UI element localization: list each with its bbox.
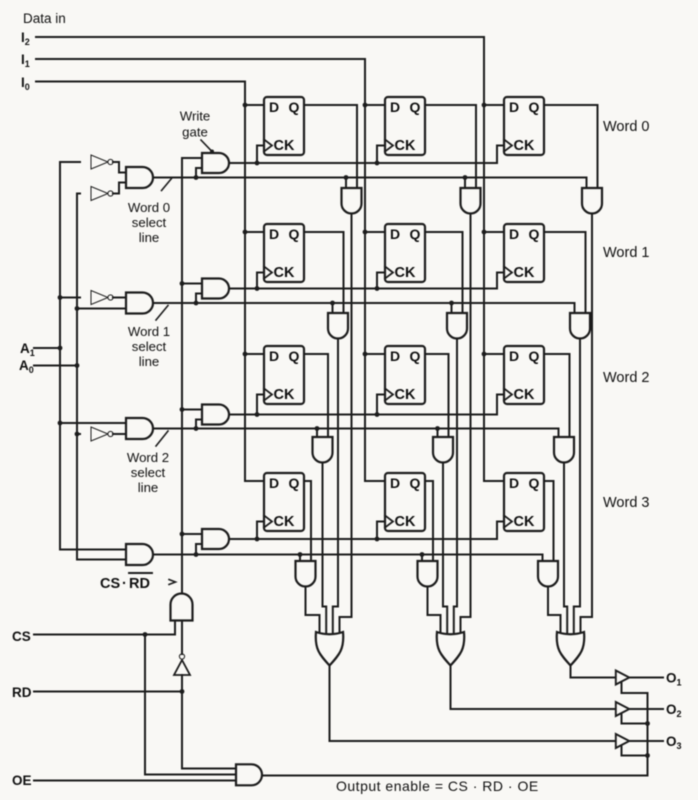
wire O2 output [629, 708, 663, 710]
svg-text:Word 3: Word 3 [603, 495, 649, 511]
label Word 0 [603, 119, 649, 135]
AND gate word2 select [126, 418, 153, 439]
wire word2 bit0 read output [323, 463, 327, 637]
svg-text:select: select [131, 465, 166, 480]
wire word3 select line [153, 554, 543, 556]
label OE [12, 773, 32, 788]
wire word1 bit2 read output [574, 339, 580, 637]
svg-text:CK: CK [274, 138, 295, 154]
svg-text:·: · [122, 576, 127, 592]
AND gate word3 write W3 [202, 529, 229, 549]
wire word0 bit1 select stub [463, 175, 468, 188]
wire word3 bit0 read output [306, 587, 320, 637]
wire RD inverter connections [181, 621, 183, 692]
wire word1 bit2 select stub [574, 303, 576, 313]
AND gate CS.RDbar (vertical) [171, 594, 193, 621]
wire word2 bit2 clock hook [497, 395, 504, 415]
wire word2 write gate inputs [182, 410, 202, 431]
svg-text:D: D [390, 99, 400, 115]
wire word3 write gate inputs [182, 534, 202, 557]
AND gate word1 write W1 [202, 279, 229, 299]
flip-flop word0 bit2 U02 [504, 97, 544, 155]
svg-text:CK: CK [514, 387, 535, 403]
AND gate word2 bit0 read [313, 437, 333, 463]
wire A0 to word1 gate [77, 308, 126, 310]
arrow word2 select [156, 431, 168, 446]
label O2 [666, 702, 682, 719]
AND gate word3 bit2 read [538, 561, 558, 587]
AND gate word1 select [126, 293, 153, 314]
wire word2 inverter out [113, 433, 126, 435]
wire A0 bus vertical [75, 194, 80, 560]
svg-text:CK: CK [395, 514, 416, 530]
AND gate word3 select [126, 544, 153, 565]
wire A1 to word3 gate [60, 549, 126, 551]
label Word 2 select line [127, 450, 169, 495]
wire word3 bit1 read output [428, 587, 441, 637]
wire word1 bit2 Q output [544, 232, 586, 313]
svg-text:O3: O3 [666, 734, 682, 751]
flip-flop word3 bit1 U31 [385, 473, 425, 531]
svg-text:Word 2: Word 2 [127, 450, 169, 465]
wire A1 to word0 inverter [60, 161, 80, 163]
OR gate bit2 output [557, 632, 585, 666]
svg-text:select: select [132, 215, 167, 230]
wire word0 select line [153, 177, 587, 179]
input A0 label [19, 358, 34, 375]
svg-text:RD: RD [129, 576, 150, 592]
label RD [12, 685, 32, 700]
wire word0 bit1 read output [461, 214, 471, 637]
wire OR bit1 to buffer [451, 666, 616, 710]
svg-text:CK: CK [274, 387, 295, 403]
wire word1 bit0 clock hook [255, 273, 264, 291]
svg-text:CK: CK [274, 514, 295, 530]
svg-text:Q: Q [410, 475, 421, 491]
svg-text:I1: I1 [21, 52, 30, 69]
svg-text:O1: O1 [666, 671, 682, 688]
wire CS to write gate [174, 621, 176, 635]
wire word0 bit2 clock hook [497, 146, 504, 164]
wire word0 inverter A jog [113, 162, 126, 173]
wire word0 bit2 select stub [586, 178, 588, 189]
svg-text:Q: Q [289, 348, 300, 364]
wire word2 bit2 Q output [544, 354, 570, 437]
wire word3 bit1 select stub [420, 552, 425, 561]
flip-flop word1 bit2 U12 [504, 224, 544, 282]
wire word2 bit0 clock hook [255, 395, 264, 417]
svg-text:Q: Q [410, 226, 421, 242]
svg-text:A1: A1 [20, 341, 35, 358]
AND gate word2 bit2 read [554, 437, 574, 463]
wire word2 bit0 select stub [315, 426, 320, 437]
wire OE input [34, 780, 236, 782]
wire A0 input [34, 363, 79, 368]
arrow CS.RDbar [169, 580, 176, 585]
svg-text:CK: CK [514, 265, 535, 281]
flip-flop word3 bit2 U32 [504, 473, 544, 531]
svg-text:Q: Q [289, 226, 300, 242]
svg-text:Q: Q [289, 475, 300, 491]
svg-text:CK: CK [395, 138, 416, 154]
wire word1 select line [153, 302, 575, 304]
svg-text:D: D [269, 226, 279, 242]
AND gate word0 bit1 read [461, 188, 481, 214]
AND gate word1 bit2 read [570, 313, 590, 339]
label CS.RDbar [100, 573, 152, 592]
svg-text:CK: CK [514, 514, 535, 530]
flip-flop word1 bit1 U11 [385, 224, 425, 282]
wire word0 bit1 clock hook [375, 146, 385, 166]
wire word0 bit1 Q output [425, 105, 476, 188]
wire word1 clock line [229, 288, 497, 290]
wire word0 bit0 Q output [304, 105, 357, 188]
svg-text:Q: Q [529, 348, 540, 364]
svg-text:Q: Q [289, 99, 300, 115]
flip-flop word2 bit0 U20 [264, 346, 304, 404]
inverter word0 A0 [91, 187, 113, 201]
svg-text:CK: CK [395, 265, 416, 281]
svg-text:OE: OE [12, 773, 32, 788]
svg-text:D: D [509, 475, 519, 491]
wire A0 to word0 inverter [77, 193, 80, 195]
label Data in [23, 11, 66, 26]
wire word2 clock line [229, 414, 497, 416]
flip-flop word0 bit0 U00 [264, 97, 304, 155]
flip-flop word2 bit2 U22 [504, 346, 544, 404]
wire A1 input [34, 346, 62, 351]
AND gate output enable [236, 764, 262, 785]
svg-text:Q: Q [410, 99, 421, 115]
flip-flop word1 bit0 U10 [264, 224, 304, 282]
wire word1 inverter out [113, 297, 126, 299]
svg-text:Output enable = CS · RD · OE: Output enable = CS · RD · OE [336, 778, 539, 794]
wire A0 to word2 inverter [77, 433, 80, 435]
wire word0 bit0 clock hook [255, 146, 264, 166]
wire A1 to word1 inverter [60, 297, 80, 299]
label Word 1 select line [128, 324, 170, 369]
wire I2 data line and column drop [36, 37, 504, 481]
tri-state buffer O1 [616, 671, 630, 685]
svg-text:Write: Write [180, 109, 211, 124]
wire word1 bit1 read output [454, 339, 457, 637]
wire OR bit0 to buffer [330, 666, 616, 742]
label CS [12, 629, 31, 644]
wire word3 bit0 select stub [298, 552, 303, 561]
wire CS input [34, 632, 175, 637]
wire word3 bit2 clock hook [497, 522, 504, 540]
label Word 3 [603, 495, 649, 511]
arrow write gate [201, 140, 214, 154]
wire RD down to output-enable gate [182, 692, 236, 769]
svg-text:gate: gate [182, 125, 208, 140]
wire word2 bit2 read output [564, 463, 567, 637]
wire word3 bit2 select stub [542, 555, 544, 562]
svg-text:line: line [139, 230, 160, 245]
wire word0 bit2 Q output [544, 105, 598, 188]
tri-state buffer O3 [616, 734, 630, 748]
wire word0 write gate inputs [182, 158, 202, 180]
wire word0 bit0 select stub [344, 175, 349, 188]
svg-text:O2: O2 [666, 702, 682, 719]
flip-flop word3 bit0 U30 [264, 473, 304, 531]
wire word1 bit2 clock hook [497, 273, 504, 289]
label output enable equation [336, 778, 539, 794]
svg-text:D: D [509, 348, 519, 364]
svg-text:CK: CK [395, 387, 416, 403]
svg-text:CS: CS [100, 576, 120, 592]
wire RD input [34, 689, 184, 694]
inverter RD (up) [174, 654, 190, 675]
wire I0 data line and column drop [36, 82, 264, 482]
input I0 label [21, 75, 30, 92]
AND gate word3 bit0 read [296, 561, 316, 587]
AND gate word1 bit1 read [447, 313, 467, 339]
wire word1 bit0 Q output [304, 232, 344, 313]
inverter word2 A0 [91, 427, 113, 441]
wire word1 write gate inputs [182, 284, 202, 306]
svg-text:D: D [390, 475, 400, 491]
svg-text:Word 0: Word 0 [603, 119, 649, 135]
wire word3 bit1 Q output [425, 481, 433, 561]
wire word3 bit1 clock hook [375, 522, 385, 542]
svg-text:Word 0: Word 0 [128, 200, 170, 215]
OR gate bit0 output [316, 632, 344, 666]
svg-text:I2: I2 [21, 30, 30, 47]
input A1 label [20, 341, 35, 358]
wire A1 bus vertical [58, 162, 63, 550]
input I1 label [21, 52, 30, 69]
wire OR bit2 to buffer [571, 666, 616, 678]
wire word2 bit1 select stub [435, 426, 440, 437]
svg-text:CK: CK [274, 265, 295, 281]
svg-text:Q: Q [529, 226, 540, 242]
svg-text:Q: Q [410, 348, 421, 364]
wire word2 bit1 read output [443, 463, 447, 637]
wire O1 output [629, 677, 663, 679]
svg-text:D: D [390, 226, 400, 242]
inverter word1 A1 [91, 291, 113, 305]
svg-text:I0: I0 [21, 75, 30, 92]
svg-text:Q: Q [529, 99, 540, 115]
wire word3 clock line [229, 538, 497, 540]
wire word0 bit2 read output [581, 214, 593, 637]
svg-text:D: D [269, 99, 279, 115]
wire word1 bit0 select stub [330, 301, 335, 313]
label Word 1 [603, 245, 649, 261]
wire word3 bit0 clock hook [255, 522, 264, 542]
OR gate bit1 output [437, 632, 465, 666]
svg-text:D: D [269, 475, 279, 491]
wire word3 bit2 read output [548, 587, 561, 637]
svg-text:Word 1: Word 1 [128, 324, 170, 339]
arrow word1 select [156, 306, 168, 321]
svg-text:D: D [390, 348, 400, 364]
svg-text:Word 1: Word 1 [603, 245, 649, 261]
wire I1 data line and column drop [36, 59, 385, 481]
flip-flop word0 bit1 U01 [385, 97, 425, 155]
tri-state buffer O2 [616, 702, 630, 716]
wire A0 to word3 gate [77, 559, 126, 561]
wire word2 select line [153, 428, 559, 430]
wire word1 bit1 clock hook [375, 273, 385, 291]
AND gate word0 bit2 read [582, 188, 602, 214]
wire word2 bit1 clock hook [375, 395, 385, 417]
svg-text:D: D [509, 226, 519, 242]
wire write-enable vertical CS.RDbar [180, 158, 185, 593]
AND gate word2 bit1 read [433, 437, 453, 463]
wire O3 output [629, 740, 663, 742]
svg-text:Q: Q [529, 475, 540, 491]
arrow word0 select [162, 179, 172, 191]
AND gate word1 bit0 read [328, 313, 348, 339]
flip-flop word2 bit1 U21 [385, 346, 425, 404]
wire word1 bit1 Q output [425, 232, 463, 313]
svg-text:D: D [269, 348, 279, 364]
AND gate word0 select [126, 167, 153, 188]
label Write gate [180, 109, 211, 140]
wire word0 inverter B jog [113, 183, 126, 194]
wire word2 bit0 Q output [304, 354, 328, 437]
svg-text:CS: CS [12, 629, 31, 644]
wire word0 clock line [229, 162, 497, 164]
AND gate word2 write W2 [202, 405, 229, 425]
svg-text:CK: CK [514, 138, 535, 154]
wire word1 bit0 read output [333, 339, 338, 637]
svg-text:select: select [132, 339, 167, 354]
svg-text:D: D [509, 99, 519, 115]
label Word 0 select line [128, 200, 170, 245]
AND gate word0 bit0 read [342, 188, 362, 214]
wire output enable line [262, 775, 648, 777]
wire CS down to output-enable gate [145, 635, 236, 775]
label O1 [666, 671, 682, 688]
svg-text:RD: RD [12, 685, 32, 700]
input I2 label [21, 30, 30, 47]
AND gate word0 write W0 [202, 153, 229, 173]
svg-text:line: line [138, 480, 159, 495]
label O3 [666, 734, 682, 751]
wire word0 bit0 read output [340, 214, 352, 637]
svg-text:Word 2: Word 2 [603, 370, 649, 386]
wire word3 bit0 Q output [304, 481, 311, 561]
wire A1 to word2 gate [60, 422, 126, 424]
label Word 2 [603, 370, 649, 386]
wire word2 bit1 Q output [425, 354, 449, 437]
svg-text:A0: A0 [19, 358, 34, 375]
svg-text:line: line [139, 354, 160, 369]
svg-text:Data in: Data in [23, 11, 66, 26]
wire word3 bit2 Q output [544, 481, 554, 561]
AND gate word3 bit1 read [418, 561, 438, 587]
inverter word0 A1 [91, 155, 113, 169]
wire word1 bit1 select stub [449, 301, 454, 313]
wire word2 bit2 select stub [558, 429, 560, 438]
wire buffer enable vertical [622, 683, 650, 776]
